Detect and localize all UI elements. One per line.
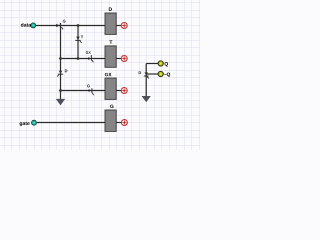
- block T: [105, 40, 116, 67]
- ground left: [56, 99, 65, 106]
- wire: left vertical bus x=60.5 from row A down to ground: [60, 23, 62, 99]
- red output pin 3 of block GX: [121, 88, 127, 94]
- transistor GX on row B: [86, 51, 94, 62]
- transistor G2 on row C: [87, 85, 94, 96]
- transistor G on row A: [56, 20, 65, 30]
- junction row C at left bus: [59, 89, 62, 92]
- wire: row C from left bus to block GX: [61, 90, 106, 92]
- wire: stub block T to red pin 2: [116, 58, 121, 60]
- wire: row B from left bus to block T: [61, 58, 106, 60]
- transistor T on branch vertical: [75, 36, 83, 43]
- wire: right row 1 to Q pin: [146, 63, 158, 65]
- wire: stub block G to red pin 4: [116, 122, 121, 124]
- red output pin 4 of block G: [121, 120, 127, 126]
- output pin Q: [158, 61, 168, 67]
- red output pin 2 of block T: [121, 56, 127, 62]
- wire: right row 2 to ~Q pin: [146, 73, 158, 75]
- junction row B at x=78: [77, 57, 80, 60]
- ground right: [142, 96, 151, 102]
- input pin data: [21, 23, 36, 28]
- block GX: [105, 73, 116, 100]
- red output pin 1 of block D: [121, 23, 127, 29]
- block D: [105, 7, 116, 34]
- block G: [105, 105, 116, 132]
- wire: branch vertical x=78 from row A to row B: [77, 26, 79, 59]
- transistor D on left bus: [57, 69, 67, 76]
- wire: stub block GX to red pin 3: [116, 90, 121, 92]
- output pin ~Q: [158, 71, 170, 77]
- wire: data row A from data pin to block D: [36, 25, 105, 27]
- transistor D on right vertical: [139, 71, 149, 78]
- junction row B at left bus: [59, 57, 62, 60]
- wire: right vertical x=146.2 from corner to ground: [145, 64, 147, 97]
- junction on row A at x=78: [77, 24, 80, 27]
- wire: stub block D to red pin 1: [116, 25, 121, 27]
- wire: gate row D from gate pin to block G: [37, 122, 105, 124]
- input pin gate: [20, 120, 37, 126]
